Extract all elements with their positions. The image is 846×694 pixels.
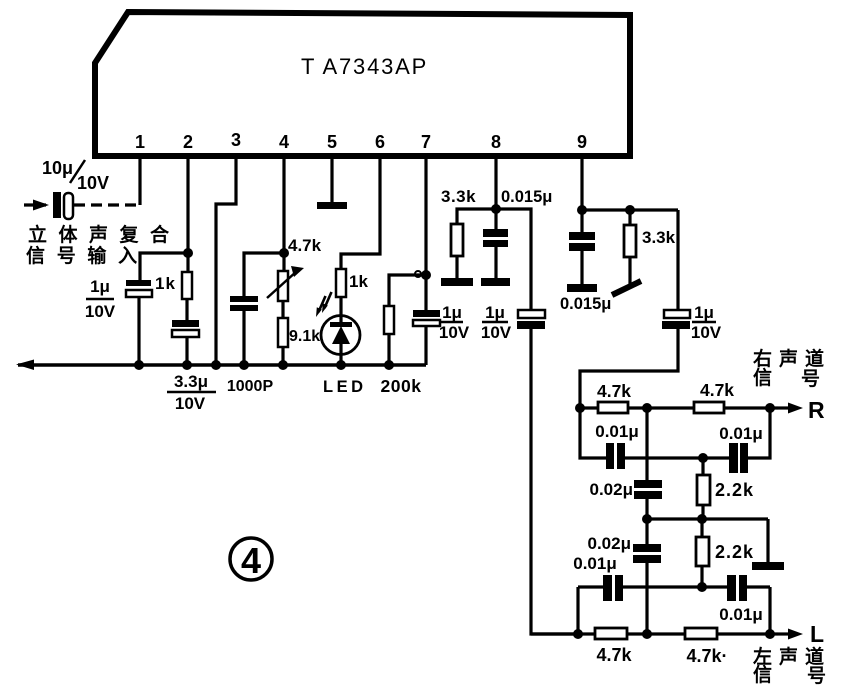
capacitor 0.015u pin9 — [569, 232, 595, 251]
label 1k LED — [349, 272, 368, 291]
svg-text:2: 2 — [183, 132, 193, 152]
svg-text:1μ: 1μ — [442, 303, 462, 322]
svg-text:2.2k: 2.2k — [715, 480, 754, 500]
capacitor 0.01u row1 right — [729, 443, 748, 473]
label 0.02u lower — [588, 534, 632, 553]
svg-text:信号输入: 信号输入 — [26, 244, 149, 267]
label 10u/10V — [42, 158, 109, 193]
wire 200k to bus — [387, 334, 390, 365]
wire mid row — [647, 517, 768, 520]
svg-text:T A7343AP: T A7343AP — [301, 54, 428, 79]
label 1u/10V L-coupling — [481, 303, 512, 342]
label 1000P — [227, 378, 274, 395]
wire mid row to 2.2k lower — [700, 519, 703, 537]
capacitor 0.02u upper — [634, 480, 662, 499]
input arrow — [24, 200, 49, 211]
resistor 2.2k upper — [697, 475, 710, 505]
wire 0.01u row2 middle — [623, 585, 727, 588]
label 200k — [381, 376, 422, 396]
node L row left — [573, 629, 583, 639]
svg-text:10V: 10V — [175, 394, 206, 413]
wire pin2 junction to 1k — [186, 253, 189, 272]
wire R row to 0.01u row1 — [580, 408, 607, 458]
label 4.7k R2 — [700, 380, 734, 400]
svg-text:4: 4 — [279, 132, 289, 152]
svg-text:10V: 10V — [85, 302, 116, 321]
node 3.3k pin9 junction — [625, 205, 635, 215]
svg-text:4.7k: 4.7k — [596, 645, 632, 665]
node mid row left — [642, 514, 652, 524]
label 0.01u row2 left — [573, 554, 617, 573]
wire LED to bus — [339, 343, 342, 365]
wire 1k to LED — [339, 297, 342, 323]
label 0.01u row2 right — [719, 605, 763, 624]
label 2.2k lower — [715, 542, 754, 562]
svg-text:5: 5 — [327, 132, 337, 152]
wire mid row to ground — [766, 519, 769, 563]
capacitor 0.01u row2 left — [603, 575, 623, 601]
svg-text:1μ: 1μ — [90, 277, 110, 296]
wire pin9 to C0.015 — [580, 210, 583, 232]
ground 3.3k pin8 — [441, 278, 473, 286]
wire pot to 9.1k — [281, 301, 284, 318]
wire L-coupling cap down to L row — [531, 329, 578, 634]
wire 1k to C3.3u — [185, 299, 188, 321]
node pin9 junction — [577, 205, 587, 215]
node LED bus junction — [336, 360, 346, 370]
wire pin9 lead — [580, 159, 583, 210]
node 200k bus junction — [384, 360, 394, 370]
resistor 3.3k pin8 — [451, 224, 463, 256]
svg-text:3.3k: 3.3k — [642, 228, 676, 247]
label right channel chinese 2 — [753, 366, 820, 390]
LED light arrows — [316, 292, 332, 317]
svg-text:信: 信 — [753, 663, 772, 686]
svg-text:0.015μ: 0.015μ — [501, 188, 552, 206]
svg-text:200k: 200k — [381, 376, 422, 396]
capacitor 1u bias — [126, 280, 152, 297]
ground C0.015 pin8 — [481, 278, 510, 286]
potentiometer 4.7k — [267, 266, 304, 301]
capacitor 1u R-coupling — [662, 310, 690, 329]
node 0.01u row1 junction — [698, 453, 708, 463]
wire R-coupling to R row — [580, 329, 678, 408]
label 1u/10V left — [85, 277, 116, 321]
wire 0.01u row2 right end — [747, 585, 770, 588]
node L row mid — [642, 629, 652, 639]
wire C1u to bus — [137, 297, 140, 365]
svg-text:8: 8 — [491, 132, 501, 152]
capacitor 3.3u — [172, 320, 199, 337]
resistor 4.7k L1 — [595, 628, 627, 639]
wire 3.3k to ground — [455, 256, 458, 279]
resistor 3.3k pin9 — [624, 225, 636, 257]
wire 0.01u junction to 2.2k upper — [701, 458, 704, 475]
wire L row — [531, 632, 778, 635]
svg-text:1k: 1k — [349, 272, 368, 291]
wire pin8 right branch down — [496, 209, 531, 311]
wire 0.01u row1 right end — [748, 408, 770, 458]
wire 2.2k lower to 0.01u row2 — [700, 566, 703, 587]
wire R row — [580, 406, 778, 409]
svg-text:号: 号 — [807, 665, 826, 687]
svg-text:R: R — [808, 397, 825, 423]
svg-text:0.01μ: 0.01μ — [595, 422, 639, 441]
wire pin3 lead — [216, 159, 236, 365]
label 4.7k L1 — [596, 645, 632, 665]
wire row2 right down to L row — [768, 587, 771, 634]
label 0.015u pin9 — [560, 295, 611, 313]
wire pin5 lead — [330, 159, 333, 203]
node pin3 bus junction — [211, 360, 221, 370]
label 3.3u/10V — [167, 372, 216, 413]
wire pin8 lead — [494, 159, 497, 209]
svg-text:4.7k: 4.7k — [700, 380, 734, 400]
svg-text:0.01μ: 0.01μ — [719, 424, 763, 443]
node pin8 junction — [491, 204, 501, 214]
wire row2 left down to L row — [576, 587, 579, 634]
wire 9.1k to bus — [281, 347, 284, 365]
svg-text:L: L — [810, 621, 824, 647]
svg-text:10μ: 10μ — [42, 158, 73, 178]
wire pin4 to C1000P — [244, 253, 284, 297]
label L output — [810, 621, 824, 647]
svg-text:9: 9 — [577, 132, 587, 152]
node pin7 junction — [421, 270, 431, 280]
resistor 4.7k R1 — [598, 402, 628, 413]
label R output — [808, 397, 825, 423]
wire pin2 to C 1u — [140, 253, 188, 281]
wire C3.3u to bus — [185, 337, 188, 365]
L output arrow — [778, 629, 803, 640]
label 4.7k R1 — [597, 381, 631, 401]
label input chinese line2 — [26, 244, 149, 267]
bus left arrowhead — [16, 360, 34, 371]
label left channel chinese — [753, 645, 831, 668]
wire pin1 lead — [138, 159, 141, 205]
node L row right — [765, 629, 775, 639]
wire pin7 lead — [424, 159, 427, 311]
svg-text:1000P: 1000P — [227, 378, 274, 395]
svg-text:4.7k·: 4.7k· — [686, 646, 727, 666]
label 0.01u row1 left — [595, 422, 639, 441]
wire pin9 right branch — [582, 208, 678, 211]
svg-text:4.7k: 4.7k — [597, 381, 631, 401]
node C1000P bus junction — [239, 360, 249, 370]
svg-text:0.015μ: 0.015μ — [560, 295, 611, 313]
node R row left — [575, 403, 585, 413]
wire pin9 branch down — [676, 210, 679, 311]
node mid row 2.2k junction — [697, 514, 707, 524]
wire pin6 lead — [341, 159, 380, 269]
resistor 4.7k L2 — [685, 628, 717, 639]
IC U1 TA7343AP body — [95, 12, 630, 156]
label 1u/10V pin7 — [439, 303, 470, 342]
wire C0.015 to ground — [494, 247, 497, 279]
wire 2.2k upper to mid row — [701, 505, 704, 519]
label 4.7k pot — [288, 236, 322, 255]
ground pin5 bar — [317, 202, 347, 209]
figure number circled 4 — [230, 538, 272, 581]
label 2.2k upper — [715, 480, 754, 500]
svg-text:号: 号 — [801, 368, 820, 390]
wire pin2 lead — [186, 159, 189, 253]
IC U1 label TA7343AP — [301, 54, 428, 79]
svg-text:0.01μ: 0.01μ — [573, 554, 617, 573]
svg-text:4: 4 — [241, 540, 261, 581]
ground mid row — [752, 562, 784, 570]
label 0.01u row1 right — [719, 424, 763, 443]
svg-text:1: 1 — [135, 132, 145, 152]
svg-text:LED: LED — [323, 378, 367, 396]
node R row right — [765, 403, 775, 413]
resistor 1k pin2 — [182, 272, 192, 299]
svg-text:10V: 10V — [691, 323, 722, 342]
label 3.3k pin9 — [642, 228, 676, 247]
wire 200k top to pin7 — [389, 275, 426, 306]
node R row mid — [642, 403, 652, 413]
svg-text:7: 7 — [421, 132, 431, 152]
label left channel chinese 2 — [753, 663, 826, 687]
svg-text:10V: 10V — [481, 323, 512, 342]
wire 0.02u lower to L row — [645, 563, 648, 634]
R output arrow — [778, 403, 803, 414]
wire pin8 to 3.3k — [457, 209, 496, 224]
resistor 4.7k R2 — [694, 402, 724, 413]
capacitor 0.01u row2 right — [727, 575, 747, 601]
wire 0.01u row2 left end — [578, 585, 604, 588]
wire mid row to 0.02u lower — [645, 519, 648, 545]
wire x647 down chain — [645, 408, 648, 481]
label 0.015u pin8 — [501, 188, 552, 206]
node 9.1k bus junction — [278, 360, 288, 370]
resistor 9.1k — [278, 318, 288, 347]
svg-text:0.02μ: 0.02μ — [588, 534, 632, 553]
svg-text:1μ: 1μ — [694, 303, 714, 322]
svg-text:立体声复合: 立体声复合 — [28, 223, 181, 246]
svg-text:3.3μ: 3.3μ — [174, 372, 208, 391]
svg-text:0.02μ: 0.02μ — [590, 480, 634, 499]
wire C1000P to bus — [242, 311, 245, 365]
node small circle on 200k wire — [415, 271, 421, 277]
svg-text:1μ: 1μ — [485, 303, 505, 322]
node 0.01u row2 junction — [697, 582, 707, 592]
node C3.3u bus junction — [182, 360, 192, 370]
capacitor 0.01u row1 left — [606, 443, 625, 469]
ground C0.015 pin9 — [567, 284, 597, 292]
resistor 2.2k lower — [696, 537, 709, 566]
label 3.3k pin8 — [441, 187, 476, 206]
svg-text:10V: 10V — [439, 323, 470, 342]
svg-text:9.1k: 9.1k — [289, 328, 320, 345]
label LED — [323, 378, 367, 396]
label 1k pin2 — [155, 274, 176, 293]
wire pin4 lead — [282, 159, 285, 253]
resistor 1k LED — [336, 269, 346, 297]
ground 3.3k pin9 diagonal — [612, 281, 641, 295]
wire 0.01u row1 middle — [625, 456, 729, 459]
label 1u/10V R-coupling — [691, 303, 722, 342]
svg-text:1k: 1k — [155, 274, 176, 293]
svg-text:右声道: 右声道 — [752, 347, 831, 370]
capacitor 0.02u lower — [633, 544, 661, 563]
label 4.7k L2 — [686, 646, 727, 666]
capacitor 0.015u pin8 — [483, 229, 508, 247]
label right channel chinese — [752, 347, 831, 370]
capacitor 1u L-coupling — [517, 310, 545, 329]
svg-text:3.3k: 3.3k — [441, 187, 476, 206]
node pin4 junction — [279, 248, 289, 258]
wire pin4 junction to pot — [282, 253, 285, 271]
resistor 200k — [384, 306, 394, 334]
wire 3.3k pin9 to ground — [628, 257, 631, 285]
capacitor 1u pin7 — [413, 310, 440, 326]
LED D1 — [321, 316, 360, 355]
wire pin8 to C0.015 — [494, 209, 497, 230]
node pin2 junction — [183, 248, 193, 258]
label input chinese line1 — [28, 223, 181, 246]
wire dashed input to pin1 — [74, 203, 140, 206]
capacitor 10u input — [53, 192, 73, 219]
node C1u bus junction — [134, 360, 144, 370]
svg-text:2.2k: 2.2k — [715, 542, 754, 562]
wire 0.02u to mid row — [645, 499, 648, 519]
svg-text:4.7k: 4.7k — [288, 236, 322, 255]
capacitor 1000P — [230, 296, 258, 311]
label 9.1k — [289, 328, 320, 345]
label 0.02u upper — [590, 480, 634, 499]
svg-text:6: 6 — [375, 132, 385, 152]
wire ground bus — [18, 363, 426, 367]
svg-text:0.01μ: 0.01μ — [719, 605, 763, 624]
svg-text:10V: 10V — [77, 173, 109, 193]
wire junction to 3.3k — [628, 210, 631, 225]
wire pin7 cap to bus — [424, 326, 427, 365]
svg-text:3: 3 — [231, 130, 241, 150]
svg-text:信: 信 — [753, 366, 772, 389]
wire C0.015 pin9 to ground — [580, 251, 583, 285]
